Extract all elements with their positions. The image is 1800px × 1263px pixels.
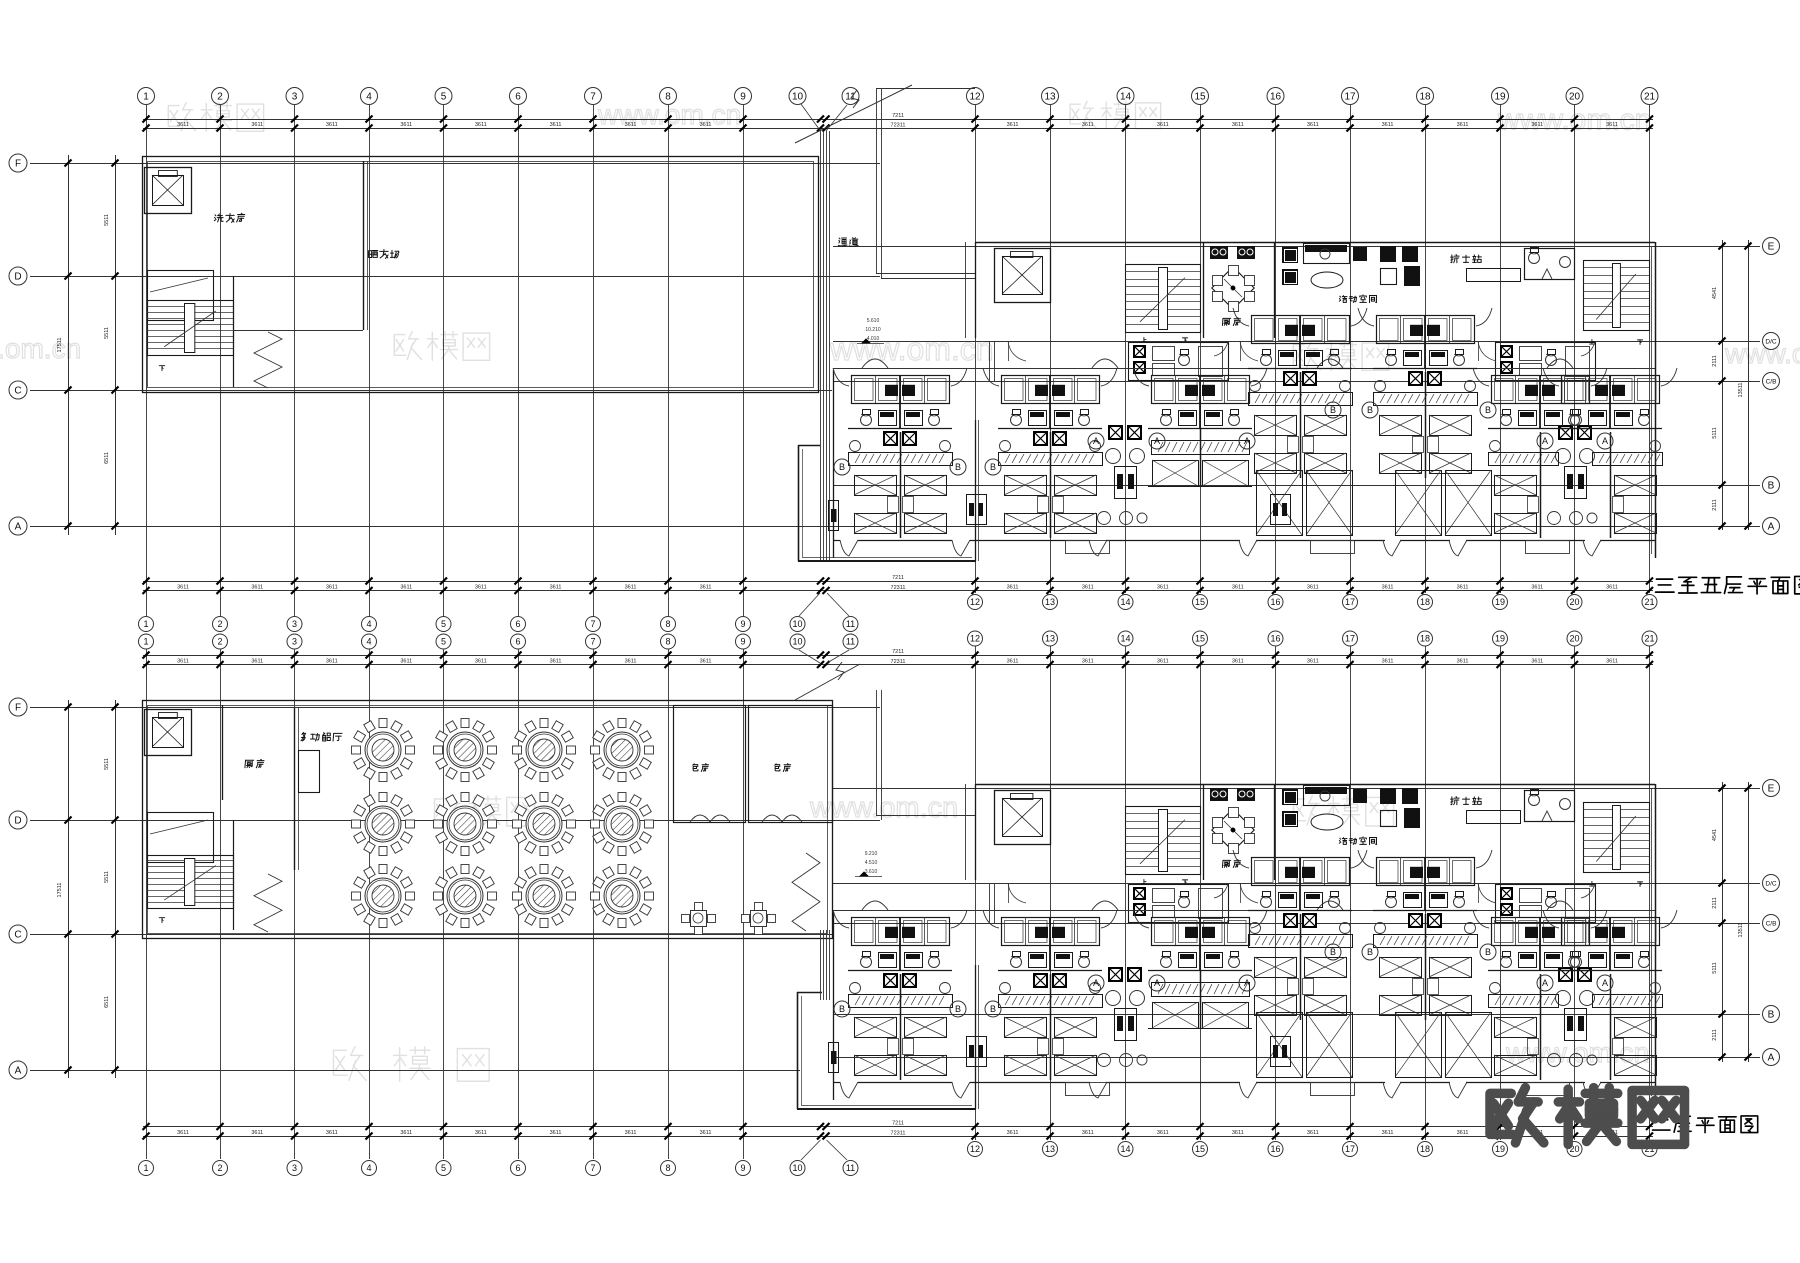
svg-text:4: 4 (366, 637, 371, 647)
svg-text:9: 9 (740, 1163, 745, 1173)
svg-text:4541: 4541 (1712, 287, 1718, 299)
svg-text:A: A (1093, 436, 1099, 446)
svg-text:3611: 3611 (550, 122, 562, 128)
svg-text:www.om.cn: www.om.cn (809, 792, 958, 824)
svg-text:B: B (1768, 1010, 1775, 1021)
svg-text:5511: 5511 (104, 871, 110, 883)
svg-text:3: 3 (292, 637, 297, 647)
svg-text:21: 21 (1644, 597, 1654, 607)
svg-text:A: A (1154, 978, 1160, 988)
svg-text:17: 17 (1344, 92, 1356, 103)
svg-text:3611: 3611 (475, 1130, 487, 1136)
svg-text:3611: 3611 (1007, 584, 1019, 590)
svg-text:13: 13 (1044, 92, 1056, 103)
svg-text:3611: 3611 (1382, 658, 1394, 664)
svg-text:1: 1 (143, 637, 148, 647)
svg-text:3611: 3611 (326, 658, 338, 664)
svg-text:B: B (955, 1004, 961, 1014)
svg-text:15: 15 (1195, 597, 1205, 607)
svg-text:www.om.cn: www.om.cn (829, 331, 994, 367)
svg-text:3611: 3611 (550, 1130, 562, 1136)
svg-text:3611: 3611 (400, 658, 412, 664)
svg-text:7: 7 (590, 92, 596, 103)
svg-text:3611: 3611 (700, 584, 712, 590)
svg-text:2111: 2111 (1712, 355, 1718, 366)
svg-text:7: 7 (590, 619, 595, 629)
svg-text:19: 19 (1494, 92, 1506, 103)
svg-text:3: 3 (292, 92, 298, 103)
svg-text:17: 17 (1345, 634, 1355, 644)
svg-text:3611: 3611 (475, 122, 487, 128)
svg-text:A: A (1768, 522, 1775, 533)
svg-text:B: B (1485, 947, 1491, 957)
svg-text:E: E (1768, 784, 1775, 795)
svg-text:10: 10 (792, 619, 802, 629)
svg-text:D: D (14, 816, 21, 827)
svg-text:3611: 3611 (700, 1130, 712, 1136)
svg-text:6511: 6511 (104, 452, 110, 464)
svg-text:3611: 3611 (1232, 1130, 1244, 1136)
svg-text:3611: 3611 (1007, 122, 1019, 128)
svg-text:20: 20 (1569, 634, 1579, 644)
svg-text:B: B (1330, 405, 1336, 415)
svg-text:2: 2 (217, 619, 222, 629)
svg-text:3611: 3611 (1232, 658, 1244, 664)
svg-text:16: 16 (1270, 92, 1282, 103)
svg-text:C/B: C/B (1766, 920, 1777, 927)
svg-text:3611: 3611 (550, 584, 562, 590)
svg-text:A: A (1093, 978, 1099, 988)
svg-text:3611: 3611 (700, 122, 712, 128)
svg-text:A: A (15, 1066, 22, 1077)
svg-text:3611: 3611 (1007, 658, 1019, 664)
svg-text:3: 3 (292, 1163, 297, 1173)
svg-text:B: B (1485, 405, 1491, 415)
svg-text:72311: 72311 (891, 585, 906, 591)
svg-text:3611: 3611 (1606, 584, 1618, 590)
svg-text:4: 4 (366, 92, 372, 103)
svg-text:16: 16 (1270, 634, 1280, 644)
svg-text:3611: 3611 (1606, 658, 1618, 664)
svg-text:14: 14 (1120, 634, 1130, 644)
svg-text:7211: 7211 (892, 113, 904, 119)
svg-text:18: 18 (1420, 1144, 1430, 1154)
svg-text:3611: 3611 (1606, 122, 1618, 128)
svg-text:3611: 3611 (1082, 122, 1094, 128)
svg-text:5111: 5111 (1712, 962, 1718, 973)
svg-text:9.210: 9.210 (865, 851, 878, 857)
svg-text:21: 21 (1644, 634, 1654, 644)
svg-text:7: 7 (590, 1163, 595, 1173)
svg-text:17: 17 (1345, 597, 1355, 607)
svg-text:3611: 3611 (326, 1130, 338, 1136)
svg-text:5111: 5111 (1712, 427, 1718, 438)
svg-text:3611: 3611 (550, 658, 562, 664)
svg-text:B: B (990, 1004, 996, 1014)
svg-text:3611: 3611 (475, 658, 487, 664)
svg-text:9: 9 (740, 619, 745, 629)
svg-text:19: 19 (1495, 634, 1505, 644)
svg-text:3611: 3611 (1157, 584, 1169, 590)
svg-text:3611: 3611 (177, 122, 189, 128)
svg-text:17511: 17511 (57, 338, 63, 353)
svg-text:5: 5 (441, 1163, 446, 1173)
svg-text:7211: 7211 (892, 1121, 904, 1127)
svg-text:7211: 7211 (892, 649, 904, 655)
svg-text:3611: 3611 (177, 584, 189, 590)
svg-text:18: 18 (1420, 597, 1430, 607)
svg-text:2: 2 (217, 92, 223, 103)
svg-text:B: B (1768, 481, 1775, 492)
svg-text:16: 16 (1270, 597, 1280, 607)
svg-text:1: 1 (143, 92, 149, 103)
svg-text:8: 8 (665, 92, 671, 103)
svg-text:3611: 3611 (1307, 658, 1319, 664)
svg-text:3611: 3611 (251, 584, 263, 590)
svg-text:11: 11 (846, 1163, 855, 1173)
svg-text:3611: 3611 (1082, 1130, 1094, 1136)
svg-text:11: 11 (846, 619, 855, 629)
svg-text:3611: 3611 (1157, 658, 1169, 664)
svg-text:13: 13 (1045, 597, 1055, 607)
svg-text:15: 15 (1195, 1144, 1205, 1154)
svg-text:8: 8 (665, 619, 670, 629)
svg-text:1: 1 (143, 619, 148, 629)
svg-text:B: B (990, 462, 996, 472)
svg-text:F: F (15, 703, 21, 714)
svg-text:B: B (1367, 405, 1373, 415)
svg-text:3611: 3611 (1232, 122, 1244, 128)
svg-text:2111: 2111 (1712, 1029, 1718, 1040)
svg-text:3611: 3611 (700, 658, 712, 664)
svg-text:5511: 5511 (104, 214, 110, 226)
svg-text:3611: 3611 (251, 658, 263, 664)
svg-text:C/B: C/B (1766, 378, 1777, 385)
svg-text:6: 6 (515, 1163, 520, 1173)
svg-text:3611: 3611 (1307, 122, 1319, 128)
svg-text:3611: 3611 (1531, 584, 1543, 590)
svg-text:10: 10 (792, 1163, 802, 1173)
svg-text:13: 13 (1045, 634, 1055, 644)
svg-text:3611: 3611 (251, 1130, 263, 1136)
svg-text:D/C: D/C (1765, 338, 1777, 345)
svg-text:14: 14 (1120, 597, 1130, 607)
svg-text:3611: 3611 (1457, 1130, 1469, 1136)
svg-text:72311: 72311 (891, 123, 906, 129)
svg-text:B: B (839, 462, 845, 472)
svg-text:3611: 3611 (177, 658, 189, 664)
svg-text:7211: 7211 (892, 575, 904, 581)
svg-text:13: 13 (1045, 1144, 1055, 1154)
svg-text:18: 18 (1419, 92, 1431, 103)
svg-text:E: E (1768, 242, 1775, 253)
svg-text:10: 10 (792, 637, 802, 647)
svg-text:A: A (1602, 436, 1608, 446)
svg-text:6: 6 (515, 637, 520, 647)
svg-text:6: 6 (515, 619, 520, 629)
svg-text:A: A (15, 522, 22, 533)
svg-text:13511: 13511 (1738, 383, 1744, 398)
svg-text:20: 20 (1569, 92, 1581, 103)
svg-text:A: A (1244, 436, 1250, 446)
svg-text:B: B (839, 1004, 845, 1014)
svg-text:9: 9 (740, 637, 745, 647)
svg-text:A: A (1602, 978, 1608, 988)
svg-text:19: 19 (1495, 1144, 1505, 1154)
svg-text:14: 14 (1120, 92, 1132, 103)
svg-text:3611: 3611 (400, 584, 412, 590)
svg-text:3611: 3611 (1307, 1130, 1319, 1136)
svg-text:B: B (1330, 947, 1336, 957)
svg-text:12: 12 (969, 92, 981, 103)
svg-text:B: B (1367, 947, 1373, 957)
svg-text:15: 15 (1194, 92, 1206, 103)
svg-text:D/C: D/C (1765, 880, 1777, 887)
svg-text:6511: 6511 (104, 996, 110, 1008)
svg-text:5: 5 (441, 92, 447, 103)
svg-text:18: 18 (1420, 634, 1430, 644)
svg-text:C: C (14, 930, 21, 941)
svg-text:9: 9 (740, 92, 746, 103)
svg-text:3611: 3611 (326, 584, 338, 590)
svg-text:3611: 3611 (625, 1130, 637, 1136)
svg-text:3611: 3611 (400, 1130, 412, 1136)
svg-text:3611: 3611 (625, 584, 637, 590)
svg-text:72311: 72311 (891, 1131, 906, 1137)
svg-text:3611: 3611 (1082, 658, 1094, 664)
svg-text:A: A (1244, 978, 1250, 988)
svg-text:10.210: 10.210 (865, 327, 881, 333)
svg-text:B: B (955, 462, 961, 472)
svg-text:3611: 3611 (1382, 584, 1394, 590)
svg-text:7: 7 (590, 637, 595, 647)
svg-text:1: 1 (143, 1163, 148, 1173)
svg-text:3611: 3611 (326, 122, 338, 128)
svg-text:3611: 3611 (1157, 1130, 1169, 1136)
svg-text:2: 2 (217, 637, 222, 647)
svg-text:72311: 72311 (891, 659, 906, 665)
svg-text:3611: 3611 (400, 122, 412, 128)
svg-text:4: 4 (366, 1163, 371, 1173)
svg-text:12: 12 (970, 597, 980, 607)
svg-text:12: 12 (970, 1144, 980, 1154)
svg-text:3611: 3611 (1157, 122, 1169, 128)
svg-text:5: 5 (441, 637, 446, 647)
svg-text:19: 19 (1495, 597, 1505, 607)
svg-text:3611: 3611 (1457, 122, 1469, 128)
svg-text:5511: 5511 (104, 758, 110, 770)
svg-text:D: D (14, 272, 21, 283)
svg-text:8: 8 (665, 637, 670, 647)
svg-text:4: 4 (366, 619, 371, 629)
svg-text:3611: 3611 (1082, 584, 1094, 590)
svg-text:3611: 3611 (1457, 584, 1469, 590)
svg-text:5511: 5511 (104, 327, 110, 339)
svg-text:14: 14 (1120, 1144, 1130, 1154)
svg-text:2: 2 (217, 1163, 222, 1173)
svg-text:17511: 17511 (57, 883, 63, 898)
svg-text:A: A (1542, 978, 1548, 988)
svg-text:16: 16 (1270, 1144, 1280, 1154)
svg-text:17: 17 (1345, 1144, 1355, 1154)
svg-text:www.om.cn: www.om.cn (1505, 1037, 1649, 1068)
svg-text:3611: 3611 (475, 584, 487, 590)
svg-text:A: A (1768, 1053, 1775, 1064)
svg-text:2111: 2111 (1712, 499, 1718, 510)
svg-text:21: 21 (1644, 92, 1656, 103)
svg-text:3611: 3611 (1307, 584, 1319, 590)
svg-text:2111: 2111 (1712, 897, 1718, 908)
svg-text:3611: 3611 (1531, 122, 1543, 128)
svg-text:20: 20 (1569, 597, 1579, 607)
svg-text:www.om.cn: www.om.cn (1724, 338, 1800, 369)
svg-text:3611: 3611 (1531, 658, 1543, 664)
svg-text:10: 10 (792, 92, 804, 103)
svg-text:5: 5 (441, 619, 446, 629)
svg-text:F: F (15, 159, 21, 170)
svg-text:13511: 13511 (1738, 923, 1744, 938)
svg-text:5.610: 5.610 (867, 318, 880, 324)
svg-text:3611: 3611 (1232, 584, 1244, 590)
svg-text:8: 8 (665, 1163, 670, 1173)
svg-text:C: C (14, 386, 21, 397)
svg-text:3611: 3611 (1007, 1130, 1019, 1136)
svg-text:6: 6 (515, 92, 521, 103)
svg-text:3611: 3611 (1382, 1130, 1394, 1136)
svg-text:A: A (1542, 436, 1548, 446)
svg-text:3611: 3611 (625, 122, 637, 128)
svg-text:3611: 3611 (1382, 122, 1394, 128)
svg-text:3: 3 (292, 619, 297, 629)
svg-text:15: 15 (1195, 634, 1205, 644)
svg-text:A: A (1154, 436, 1160, 446)
svg-text:3611: 3611 (625, 658, 637, 664)
svg-text:www.om.cn: www.om.cn (597, 99, 741, 130)
svg-text:4.510: 4.510 (865, 860, 878, 866)
svg-text:3611: 3611 (1457, 658, 1469, 664)
svg-text:11: 11 (846, 637, 855, 647)
svg-text:12: 12 (970, 634, 980, 644)
svg-text:4541: 4541 (1712, 829, 1718, 841)
svg-text:3611: 3611 (177, 1130, 189, 1136)
svg-text:3611: 3611 (251, 122, 263, 128)
